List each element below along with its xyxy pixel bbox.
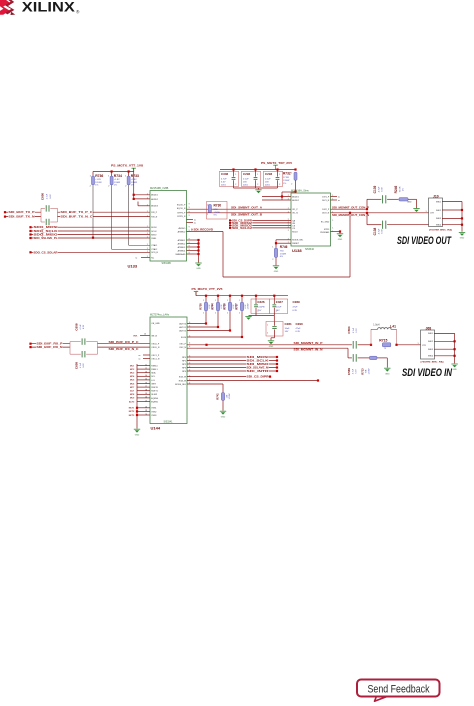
svg-text:2: 2 — [258, 311, 259, 313]
capacitor C569 — [352, 354, 354, 362]
nodes tie column — [136, 407, 138, 409]
ground U144 tie column — [134, 428, 140, 430]
svg-text:PS_MGTX_VTT_2V5: PS_MGTX_VTT_2V5 — [192, 287, 224, 291]
wire SDI_MISO — [187, 363, 277, 365]
svg-text:2: 2 — [272, 259, 273, 261]
svg-text:GND: GND — [274, 271, 279, 273]
wire SDI_MOSI2 — [230, 222, 291, 224]
svg-text:11: 11 — [145, 364, 147, 366]
wire SDI_MISO2 — [230, 224, 291, 226]
svg-text:RXI_N: RXI_N — [151, 217, 157, 219]
svg-text:(75OHM_BNC_RA): (75OHM_BNC_RA) — [429, 229, 452, 232]
wire NC stub U133 right 2 — [187, 221, 194, 223]
svg-text:SDI_BUF_RX_P_C: SDI_BUF_RX_P_C — [109, 341, 139, 344]
node loop to out N — [349, 212, 351, 214]
wire SDO_SCLK — [31, 230, 151, 232]
node rail-R733 — [128, 170, 130, 172]
ground J10 — [459, 231, 465, 233]
svg-text:nc: nc — [139, 355, 141, 357]
svg-text:1%: 1% — [403, 188, 405, 191]
wire RCB_W — [187, 380, 318, 382]
wire U144 tie MCT3 — [137, 414, 150, 416]
svg-text:ETR3: ETR3 — [324, 229, 330, 231]
svg-text:C563: C563 — [347, 326, 351, 334]
svg-text:21: 21 — [145, 400, 147, 402]
wire SDI_MGMNT_IN_N — [187, 347, 348, 349]
svg-text:6.3V: 6.3V — [382, 187, 384, 192]
svg-text:FLLM: FLLM — [181, 337, 186, 339]
svg-text:0201: 0201 — [221, 185, 227, 187]
label SDI_BUF_RX_N — [36, 346, 63, 349]
wire SDI_MGMNT_OUT_CON_P — [331, 208, 368, 210]
svg-text:1%: 1% — [114, 184, 117, 186]
node SDO_MISO — [29, 233, 31, 235]
capacitor C659 — [70, 353, 81, 355]
wire U144 tie MC3 — [137, 372, 150, 374]
svg-text:SDI_SCLK2: SDI_SCLK2 — [232, 228, 253, 230]
U144 tie column — [136, 364, 138, 429]
node SDI_MISO2 — [229, 224, 231, 226]
svg-text:9: 9 — [189, 207, 190, 209]
wire AUTO0 — [187, 323, 206, 325]
svg-text:16V: 16V — [265, 182, 269, 184]
svg-text:C138: C138 — [373, 227, 377, 235]
node R746 top — [275, 242, 277, 244]
ground R713 — [384, 367, 390, 369]
svg-text:5%: 5% — [214, 214, 217, 216]
resistor R713 — [370, 356, 377, 359]
svg-text:12: 12 — [145, 368, 147, 370]
label SDI_MISO2 — [232, 224, 253, 226]
svg-text:U144: U144 — [151, 425, 161, 430]
wire U144 tie MC8 — [137, 393, 150, 395]
svg-text:GND: GND — [221, 416, 226, 418]
svg-text:1.0uFB: 1.0uFB — [257, 306, 265, 308]
svg-text:4: 4 — [189, 326, 190, 328]
svg-text:2: 2 — [288, 208, 289, 210]
label SDI_RECOVD — [191, 229, 214, 231]
wire R732 to U138 — [295, 180, 297, 193]
node SDI_BUF_RX_N input — [29, 346, 31, 348]
node IN_P — [205, 344, 207, 346]
op IC U144 box — [150, 317, 187, 424]
svg-text:DIV2_N: DIV2_N — [322, 213, 330, 215]
svg-text:1: 1 — [267, 324, 268, 326]
inductor L41 — [370, 329, 372, 345]
wire C569 branch — [347, 348, 349, 358]
capacitor C281/C290 — [273, 316, 275, 322]
node lower rail — [241, 295, 243, 297]
ground R746 — [273, 265, 279, 267]
node AUTO1 — [217, 326, 219, 328]
svg-text:4.7uF: 4.7uF — [221, 179, 227, 181]
label SDI_BUF_TX_N — [8, 215, 35, 218]
svg-text:ATMEL1: ATMEL1 — [178, 239, 187, 242]
svg-text:1: 1 — [147, 226, 148, 228]
label SDI_SCLK2 — [232, 227, 253, 229]
wire SDI_BUF_TX_N_C — [58, 216, 151, 218]
svg-text:C326: C326 — [257, 300, 265, 304]
wire R713 to gnd — [377, 357, 387, 359]
connector J10 — [429, 198, 443, 227]
wire SDI_BUF_RX_N_C — [98, 346, 151, 348]
svg-text:SDO_SSLAVE_PL: SDO_SSLAVE_PL — [34, 237, 59, 240]
svg-text:4.7uF: 4.7uF — [379, 186, 381, 192]
wire U144 tie AC7 — [137, 390, 150, 392]
svg-text:SHD2: SHD2 — [436, 210, 441, 212]
wire AUTO2 — [187, 330, 230, 332]
svg-text:R246: R246 — [394, 185, 398, 193]
svg-text:1: 1 — [258, 302, 259, 304]
svg-text:13: 13 — [145, 372, 147, 374]
svg-text:nc: nc — [139, 358, 141, 360]
svg-text:1: 1 — [418, 343, 419, 345]
svg-text:SHD2: SHD2 — [428, 341, 433, 343]
label SDO_CS_SOLAR — [33, 251, 58, 253]
svg-text:GND: GND — [338, 239, 343, 241]
wire SDI_BUF_TX_P — [5, 211, 41, 213]
capacitor C293 — [264, 171, 283, 186]
svg-text:4: 4 — [189, 342, 190, 344]
ground capacitor row — [255, 189, 261, 191]
wires J10 shield pins — [442, 201, 462, 203]
svg-text:4: 4 — [189, 329, 190, 331]
wire MODE_SEL to R742 — [187, 383, 223, 385]
nodes ATMEL tie column — [197, 239, 199, 241]
label SDI_MGMNT_IN_P — [293, 342, 323, 344]
resistor R742 — [221, 393, 224, 401]
svg-text:2: 2 — [235, 184, 236, 186]
svg-text:C290: C290 — [296, 322, 304, 326]
capacitor C138 — [382, 221, 384, 229]
svg-text:1: 1 — [332, 220, 333, 222]
svg-text:6.3V: 6.3V — [356, 369, 358, 374]
wire U138 gnd pin — [331, 231, 341, 233]
wire NC stub U133 right 1 — [187, 218, 194, 220]
svg-text:1.0uH: 1.0uH — [373, 324, 379, 326]
svg-text:2: 2 — [239, 312, 240, 314]
svg-text:SDI_MGMNT_OUT_CON_N: SDI_MGMNT_OUT_CON_N — [332, 214, 369, 217]
wire R246 to gnd — [408, 198, 417, 200]
svg-text:6.3V: 6.3V — [50, 194, 52, 199]
svg-text:VI1_N: VI1_N — [292, 213, 298, 215]
svg-text:U133: U133 — [128, 264, 138, 269]
svg-text:MODE_SEL: MODE_SEL — [175, 384, 187, 386]
wire loop bottom edge — [223, 276, 350, 278]
svg-text:SSEL: SSEL — [151, 238, 157, 240]
svg-text:GND: GND — [385, 373, 390, 375]
svg-text:GND: GND — [269, 346, 274, 348]
svg-text:9: 9 — [189, 215, 190, 217]
svg-text:1: 1 — [147, 248, 148, 250]
wire SDI_RECOVD — [187, 231, 224, 233]
svg-text:1: 1 — [147, 251, 148, 253]
node AUTO0 — [205, 322, 207, 324]
svg-text:16: 16 — [145, 382, 147, 384]
svg-text:PS_MGTX_VTT_1V8: PS_MGTX_VTT_1V8 — [111, 164, 144, 168]
node U138 AVDD1 — [281, 195, 283, 197]
svg-text:6.3V: 6.3V — [356, 328, 358, 333]
label SDI_BUF_RX_P — [36, 343, 63, 346]
svg-text:1: 1 — [215, 300, 216, 302]
resistor R738 — [205, 296, 207, 324]
svg-text:BYPS_P: BYPS_P — [178, 213, 186, 215]
node SDI_BUF_RX_P input — [29, 343, 31, 345]
wire to J68 — [397, 344, 422, 346]
svg-text:2: 2 — [257, 184, 258, 186]
svg-text:MZ7574xx_LAHx: MZ7574xx_LAHx — [150, 314, 170, 317]
svg-text:14: 14 — [145, 375, 147, 377]
svg-text:GND: GND — [452, 369, 457, 371]
wire R742 to gnd — [222, 400, 224, 410]
svg-text:2: 2 — [288, 230, 289, 232]
label SDI_SCLK — [246, 359, 269, 361]
svg-text:1: 1 — [147, 194, 148, 196]
node SDO_MOSI — [29, 226, 31, 228]
svg-text:CTR: CTR — [430, 213, 435, 215]
svg-text:ACT3: ACT3 — [129, 400, 135, 403]
svg-text:RDET1: RDET1 — [151, 391, 158, 393]
node lower rail — [255, 295, 257, 297]
op IC U138 box — [291, 193, 331, 246]
label SDI_BUF_TX_P_C — [60, 211, 93, 214]
resistor R730 — [207, 202, 228, 220]
svg-text:OE_GND: OE_GND — [151, 323, 160, 325]
svg-text:1/16W: 1/16W — [229, 393, 231, 399]
node U138 gnd pin — [339, 230, 341, 232]
svg-text:4%: 4% — [280, 256, 283, 258]
ground ATMEL tie column — [195, 262, 201, 264]
node SDI_SSLAVE_M — [276, 366, 278, 368]
resistor R734 — [111, 172, 113, 177]
svg-text:SDI_SMBNT_OUT_A: SDI_SMBNT_OUT_A — [231, 206, 262, 209]
svg-text:MCT3: MCT3 — [129, 415, 135, 417]
wire INT stub — [140, 335, 150, 337]
capacitor C658 — [69, 342, 71, 355]
wire U144 tie MC5 — [137, 379, 150, 381]
label SDO_SSLAVE_PL — [33, 237, 58, 239]
svg-text:EQEN0: EQEN0 — [151, 398, 159, 400]
capacitor C563 — [352, 341, 354, 349]
svg-text:1: 1 — [147, 233, 148, 235]
capacitor C326 — [251, 299, 269, 314]
wire upper-left VTT rail — [93, 171, 134, 173]
svg-text:(75OHM_BNC_RA): (75OHM_BNC_RA) — [421, 360, 444, 363]
wire SDO_SSLAVE_PL — [31, 237, 151, 239]
svg-text:RSEL1: RSEL1 — [151, 369, 158, 371]
svg-text:EQEN1: EQEN1 — [151, 401, 159, 403]
svg-text:6.3V: 6.3V — [83, 324, 85, 329]
wires J68 shield pins — [434, 332, 455, 334]
wire U144 osc1 stub a — [143, 354, 150, 356]
svg-text:1.0uF: 1.0uF — [276, 306, 282, 308]
label SDI_BUF_TX_N_C — [60, 215, 93, 218]
svg-text:1: 1 — [291, 172, 292, 174]
wire loop left edge — [222, 232, 224, 278]
resistor R736 — [92, 172, 94, 177]
node R736-SDO_SSLAVE — [92, 237, 94, 239]
wire SDI_BUF_TX_P_C — [58, 211, 151, 213]
wire U144 tie MCT2 — [137, 410, 150, 412]
ground C281 — [268, 340, 274, 342]
node rail C336 — [232, 168, 234, 170]
wire J68 shield tie — [454, 333, 456, 363]
node SDO_CS_SOLAR — [29, 251, 31, 253]
svg-text:2: 2 — [203, 312, 204, 314]
svg-text:1: 1 — [239, 300, 240, 302]
svg-text:R730: R730 — [214, 204, 222, 208]
svg-text:SCLK: SCLK — [151, 231, 157, 233]
label SDI_CS_DIPR — [246, 376, 269, 378]
svg-text:4.7uF: 4.7uF — [47, 193, 49, 199]
svg-text:SDI_BUF_RX_P: SDI_BUF_RX_P — [37, 342, 63, 346]
resistor R715 — [382, 343, 390, 347]
svg-text:OSC0_N: OSC0_N — [151, 347, 160, 349]
wire U138 NC stub r1 — [331, 196, 338, 198]
svg-text:EQOU_P: EQOU_P — [177, 205, 186, 207]
svg-text:C658: C658 — [74, 323, 78, 331]
node SDI_SCLK2 — [229, 227, 231, 229]
label SDI_SSLAVE_M — [246, 366, 269, 368]
label SDI_MISO — [246, 363, 269, 365]
svg-text:9 SDI_RECOVD: 9 SDI_RECOVD — [191, 229, 213, 232]
resistor R739 — [229, 296, 231, 331]
resistor R744 — [217, 296, 219, 327]
svg-text:R742: R742 — [215, 393, 219, 400]
wire U133 nc stub left — [141, 257, 150, 259]
svg-text:SI5316B: SI5316B — [162, 262, 172, 265]
svg-text:SDI_MGMNT_IN_P: SDI_MGMNT_IN_P — [294, 342, 324, 345]
wire AVDD feed vertical — [133, 172, 135, 199]
svg-text:10nF: 10nF — [285, 328, 291, 330]
capacitor C292 — [242, 171, 261, 186]
svg-text:SDI_MGMNT_OUT_CON_P: SDI_MGMNT_OUT_CON_P — [332, 206, 369, 209]
node SDI_CS_DXPR — [229, 219, 231, 221]
node L41 right — [395, 344, 397, 346]
svg-text:R737: R737 — [235, 303, 239, 310]
wire AUTO1 — [187, 326, 218, 328]
svg-text:MZ1516B_1V8B: MZ1516B_1V8B — [150, 187, 169, 190]
capacitor C656 — [40, 208, 42, 222]
node lower rail — [217, 295, 219, 297]
svg-text:75.0R: 75.0R — [400, 186, 402, 192]
capacitor C327 — [269, 299, 287, 314]
wire SDO_CS_SOLAR — [31, 251, 151, 253]
wire U144 tie MC4 — [137, 375, 150, 377]
svg-text:R713: R713 — [361, 368, 365, 375]
node RCB_W — [317, 379, 319, 381]
svg-text:0.1uF: 0.1uF — [265, 179, 271, 181]
wire R746 to ground — [275, 257, 277, 265]
svg-text:AVDD3: AVDD3 — [151, 205, 158, 208]
wire AVDD2 into U133 — [134, 198, 150, 200]
svg-text:RSEL0: RSEL0 — [151, 365, 158, 367]
svg-text:C659: C659 — [74, 362, 78, 370]
wire SDI_BUF_RX_P — [31, 343, 71, 345]
svg-text:AVSSO: AVSSO — [179, 227, 186, 230]
Xilinx logo mark — [0, 0, 15, 15]
ground R742 — [220, 410, 226, 412]
svg-text:AUTO2: AUTO2 — [179, 329, 187, 332]
svg-text:2: 2 — [276, 311, 277, 313]
wire J10 shield tie — [461, 202, 463, 232]
svg-text:16V: 16V — [285, 331, 289, 333]
svg-text:1: 1 — [235, 174, 236, 176]
svg-text:SHD3: SHD3 — [436, 218, 441, 220]
svg-text:1: 1 — [147, 215, 148, 217]
wire R736 pull column — [92, 185, 94, 238]
ground lower cap row — [245, 315, 251, 317]
wire AVDD1 into U133 — [134, 194, 150, 196]
svg-text:SLEW: SLEW — [151, 394, 157, 396]
svg-text:EQOU_N: EQOU_N — [177, 208, 186, 210]
svg-text:9: 9 — [189, 204, 190, 206]
node FLLM — [241, 336, 243, 338]
svg-text:C293: C293 — [265, 172, 273, 176]
node AVDD1 — [133, 194, 135, 196]
svg-text:DIV1_N: DIV1_N — [322, 200, 330, 202]
wire ATMEL pins to tie column — [187, 239, 199, 241]
svg-text:RCB_W: RCB_W — [179, 380, 186, 382]
svg-text:4: 4 — [189, 322, 190, 324]
label SDI_BUF_TX_P — [8, 211, 35, 214]
svg-text:SDI_BUF_TX_N: SDI_BUF_TX_N — [9, 215, 35, 219]
svg-text:J10: J10 — [433, 195, 439, 199]
svg-text:R744: R744 — [211, 303, 215, 310]
svg-text:XTAL1: XTAL1 — [151, 244, 158, 247]
ground output termination — [413, 208, 419, 210]
label SDI_CS_DXPR — [232, 219, 253, 221]
svg-text:SHD1: SHD1 — [428, 333, 433, 335]
svg-text:AVDD2: AVDD2 — [151, 198, 158, 201]
node SDO_SSLAVE_PL — [29, 237, 31, 239]
svg-text:AVDD1: AVDD1 — [292, 195, 299, 198]
resistor R746 — [274, 248, 277, 257]
svg-text:1: 1 — [147, 230, 148, 232]
wire U144 tie ACT3 — [137, 401, 150, 403]
op IC U133 box — [150, 191, 187, 262]
svg-text:1/10W: 1/10W — [280, 253, 287, 255]
node SDI_CS_DIPR — [269, 376, 271, 378]
svg-text:MOSI: MOSI — [151, 227, 157, 229]
node AVDD2 — [133, 198, 135, 200]
svg-text:2: 2 — [291, 183, 292, 185]
svg-text:17: 17 — [145, 386, 147, 388]
svg-text:2: 2 — [215, 312, 216, 314]
svg-text:DIV1_P: DIV1_P — [322, 196, 330, 198]
svg-text:C139: C139 — [373, 185, 377, 193]
svg-text:24: 24 — [145, 414, 147, 416]
node lower rail — [229, 295, 231, 297]
svg-text:1/16W: 1/16W — [248, 303, 250, 309]
ground U138 right — [337, 233, 343, 235]
svg-text:SCS_B: SCS_B — [151, 252, 158, 254]
label SDI_MGMNT_OUT_CON_P — [332, 206, 370, 208]
svg-text:SDI_BUF_RX_N_C: SDI_BUF_RX_N_C — [109, 348, 139, 351]
node SDI_MISO — [276, 363, 278, 365]
wire cap row bottom to gnd — [249, 315, 275, 317]
svg-text:XTAL2: XTAL2 — [151, 248, 158, 251]
svg-text:1: 1 — [257, 174, 258, 176]
svg-text:R715: R715 — [379, 338, 387, 342]
wire capacitor row bottom rail — [234, 187, 278, 189]
svg-text:R739: R739 — [223, 303, 227, 310]
svg-text:PEDRIAD: PEDRIAD — [320, 231, 329, 234]
svg-text:1: 1 — [147, 198, 148, 200]
wire SDI_SSLAVE_M — [187, 367, 277, 369]
wire U144 tie MCT1 — [137, 407, 150, 409]
svg-text:VI1_P: VI1_P — [292, 209, 298, 211]
